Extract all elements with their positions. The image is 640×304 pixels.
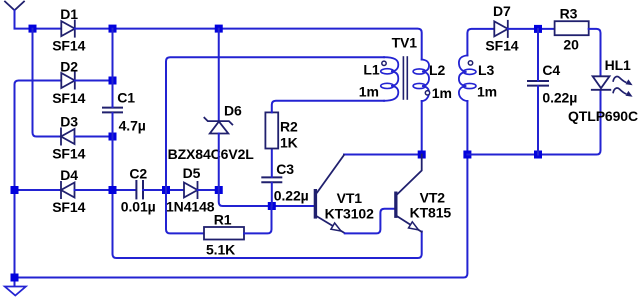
capacitor C1	[103, 108, 122, 113]
wire D4 to C2	[75, 189, 136, 191]
svg-text:SF14: SF14	[52, 90, 85, 106]
svg-text:C4: C4	[542, 62, 560, 78]
svg-text:KT815: KT815	[410, 205, 452, 221]
wire L2 bottom to collector row	[421, 101, 423, 155]
diode D1	[61, 21, 75, 37]
node junction B (112.5,28.6)	[109, 25, 117, 33]
wire D2 to C1 column	[75, 80, 113, 82]
wire D2 row left and column x=14.5 to ground	[15, 81, 62, 287]
inductor L3 coil	[459, 55, 468, 101]
wire L3 bottom down to ground row	[15, 101, 468, 278]
wire D7 to R3	[508, 28, 555, 30]
LED HL1 light arrow 2	[613, 88, 632, 97]
node junction L3/row154 (467.4,154.5)	[463, 151, 471, 159]
LED HL1 light arrow 1	[613, 76, 632, 85]
wire D4 row left	[15, 189, 62, 191]
svg-text:L3: L3	[478, 62, 494, 78]
resistor R3	[555, 21, 589, 35]
node junction ground (14.5,277.5)	[11, 274, 19, 282]
wire R2 top to L1 bottom	[272, 101, 384, 113]
transformer core	[403, 57, 407, 99]
polarity dot L1	[382, 61, 386, 65]
svg-text:SF14: SF14	[52, 37, 85, 53]
svg-text:1m: 1m	[359, 83, 379, 99]
wire L1 top to C2/D5 node column	[166, 57, 384, 190]
diode D5	[184, 182, 198, 198]
resistor R2	[265, 112, 278, 148]
svg-text:VT1: VT1	[337, 190, 363, 206]
wire C4 top stem	[537, 29, 539, 81]
svg-text:C1: C1	[117, 90, 135, 106]
wire D3 to C1 column	[75, 136, 113, 138]
svg-text:SF14: SF14	[485, 38, 518, 54]
svg-text:D5: D5	[183, 165, 201, 181]
transistor VT2 collector	[398, 155, 422, 195]
svg-text:4.7µ: 4.7µ	[119, 117, 146, 133]
svg-text:D7: D7	[493, 3, 511, 19]
node junction C3/R1/base (271.8,206)	[268, 202, 276, 210]
capacitor C2	[136, 181, 143, 198]
wire C2 to D5	[143, 189, 184, 191]
wire R1 right to base node	[244, 206, 272, 233]
node junction C (218.75,28.6)	[215, 25, 223, 33]
node junction D2/C1 (112.5,80.5)	[109, 77, 117, 85]
diode D7	[494, 21, 508, 37]
node junction C2/D5/L1/R1 (166,190)	[162, 186, 170, 194]
wire column x=32.5 down to D3 row	[33, 29, 62, 137]
node junction D4 left (14.5,190)	[11, 186, 19, 194]
transistor VT1 emitter	[317, 217, 345, 234]
transistor VT1 base bar	[314, 189, 317, 219]
node junction D3/C1 (112.5,136.5)	[109, 133, 117, 141]
transistor VT1 emitter arrow	[331, 223, 341, 231]
svg-text:20: 20	[563, 36, 579, 52]
svg-text:1m: 1m	[432, 85, 452, 101]
svg-text:0.01µ: 0.01µ	[121, 199, 156, 215]
inductor L1 winding	[384, 57, 398, 101]
svg-text:1K: 1K	[280, 135, 298, 151]
svg-text:D2: D2	[60, 59, 78, 75]
svg-text:TV1: TV1	[392, 35, 418, 51]
capacitor C3	[262, 177, 281, 182]
wire collector row (VT1 to junction)	[344, 154, 422, 156]
antenna	[5, 2, 24, 11]
svg-text:KT3102: KT3102	[325, 205, 375, 221]
wire R3 to LED column	[589, 29, 601, 76]
node junction collectors/L2 (421.7,154.5)	[418, 151, 426, 159]
transistor VT2 base bar	[394, 192, 397, 218]
resistor R1	[204, 227, 244, 240]
node junction A (32.5,28.6)	[29, 25, 37, 33]
svg-text:VT2: VT2	[420, 190, 446, 206]
wire D6 column top (rail to zener)	[218, 29, 220, 121]
svg-text:R2: R2	[280, 119, 298, 135]
svg-text:HL1: HL1	[605, 57, 631, 73]
svg-text:SF14: SF14	[52, 145, 85, 161]
LED HL1	[592, 76, 611, 90]
wire C3 bottom stem	[271, 183, 273, 206]
transistor VT2 emitter	[398, 217, 422, 232]
wire top rail D1 to L2	[75, 29, 422, 60]
inductor L1 crossover loops	[381, 69, 394, 74]
svg-text:R3: R3	[560, 6, 578, 22]
wire D6 anode down and across to VT1 base	[219, 134, 314, 207]
zener diode D6	[204, 118, 232, 134]
node junction D4/C1col (112.5,190)	[109, 186, 117, 194]
svg-text:QTLP690C: QTLP690C	[568, 108, 638, 124]
inductor L2 crossover loops	[413, 69, 425, 74]
svg-text:D6: D6	[224, 103, 242, 119]
polarity dot L3	[468, 61, 472, 65]
svg-text:BZX84C6V2L: BZX84C6V2L	[168, 146, 255, 162]
capacitor C4	[528, 81, 548, 86]
svg-text:R1: R1	[214, 211, 232, 227]
wire C3 top to R2 bottom	[271, 149, 273, 178]
svg-text:C2: C2	[129, 165, 147, 181]
transistor VT1 collector	[317, 155, 344, 193]
svg-text:L1: L1	[363, 62, 379, 78]
node junction D5/D6 (218.75,190)	[215, 186, 223, 194]
wire C1 column upper	[112, 29, 114, 107]
svg-text:L2: L2	[429, 62, 445, 78]
inductor L3 winding with top corner to D7	[467, 29, 494, 56]
wire row 154.5 right (L3 to LED)	[467, 91, 600, 155]
svg-text:D4: D4	[60, 167, 78, 183]
wire C1 column lower + bottom row to VT2 emitter	[113, 113, 422, 258]
wire R1 loop (junction 166 down, to R1 box)	[166, 190, 204, 233]
wire D5 to D6 column	[198, 189, 219, 191]
svg-text:0.22µ: 0.22µ	[542, 90, 577, 106]
svg-text:SF14: SF14	[52, 199, 85, 215]
polarity dot L2	[425, 91, 429, 95]
ground	[5, 287, 26, 296]
diode D4	[61, 182, 75, 198]
svg-text:5.1K: 5.1K	[206, 242, 235, 258]
wire VT1 emitter to VT2 base	[345, 209, 394, 234]
diode D2	[61, 72, 75, 88]
diode D3	[61, 128, 75, 144]
wire antenna stem to top rail	[15, 10, 62, 28]
inductor L2 winding	[422, 60, 429, 102]
svg-text:D3: D3	[60, 114, 78, 130]
node junction C4/row154 (538,154.5)	[534, 151, 542, 159]
node junction D7/C4 (538,28.9)	[534, 25, 542, 33]
svg-text:1m: 1m	[477, 83, 497, 99]
transistor VT2 emitter arrow	[409, 222, 419, 230]
svg-text:C3: C3	[276, 161, 294, 177]
svg-text:0.22µ: 0.22µ	[274, 187, 309, 203]
inductor L3 crossover loops	[463, 69, 476, 74]
svg-text:1N4148: 1N4148	[166, 199, 215, 215]
svg-text:D1: D1	[60, 6, 78, 22]
wire C4 bottom stem	[537, 86, 539, 154]
